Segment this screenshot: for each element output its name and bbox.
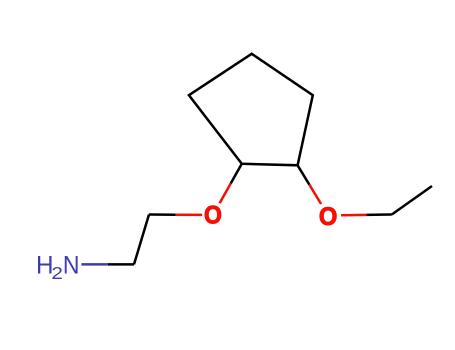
svg-text:N: N [63, 252, 80, 280]
svg-text:O: O [204, 202, 222, 230]
svg-text:O: O [319, 204, 337, 232]
svg-text:2: 2 [51, 264, 63, 283]
